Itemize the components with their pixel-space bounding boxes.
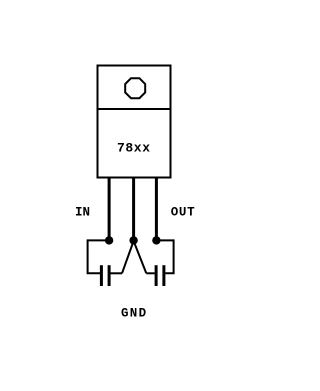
capacitor C2 right plate xyxy=(162,265,165,286)
svg-text:IN: IN xyxy=(75,206,90,220)
wire: GND node diagonal to C1 xyxy=(122,241,134,273)
wire: GND node diagonal to C2 xyxy=(134,241,147,273)
capacitor C2 left plate xyxy=(155,265,158,286)
svg-text:GND: GND xyxy=(121,307,147,321)
wire: IN node to capacitor C1 left plate xyxy=(88,240,110,273)
junction dot: GND node xyxy=(129,236,137,244)
junction dot: OUT node xyxy=(152,236,160,244)
wire: capacitor C2 left plate stub xyxy=(146,272,154,274)
regulator U1 mounting hole (octagon) xyxy=(125,78,145,98)
regulator U1 78xx package outline xyxy=(98,66,171,178)
capacitor C1 right plate xyxy=(108,265,111,286)
wire: capacitor C1 right plate stub xyxy=(111,272,123,274)
wire: pin 2 lead (GND) xyxy=(132,178,135,241)
wire: pin 3 lead (OUT) xyxy=(155,178,158,241)
wire: OUT node to capacitor C2 right plate xyxy=(156,240,173,273)
capacitor C1 left plate xyxy=(100,265,103,286)
junction dot: IN node xyxy=(105,236,113,244)
regulator U1 tab divider line xyxy=(97,108,172,110)
svg-text:OUT: OUT xyxy=(171,206,196,220)
wire: pin 1 lead (IN) xyxy=(108,178,111,241)
svg-text:78xx: 78xx xyxy=(117,140,151,155)
